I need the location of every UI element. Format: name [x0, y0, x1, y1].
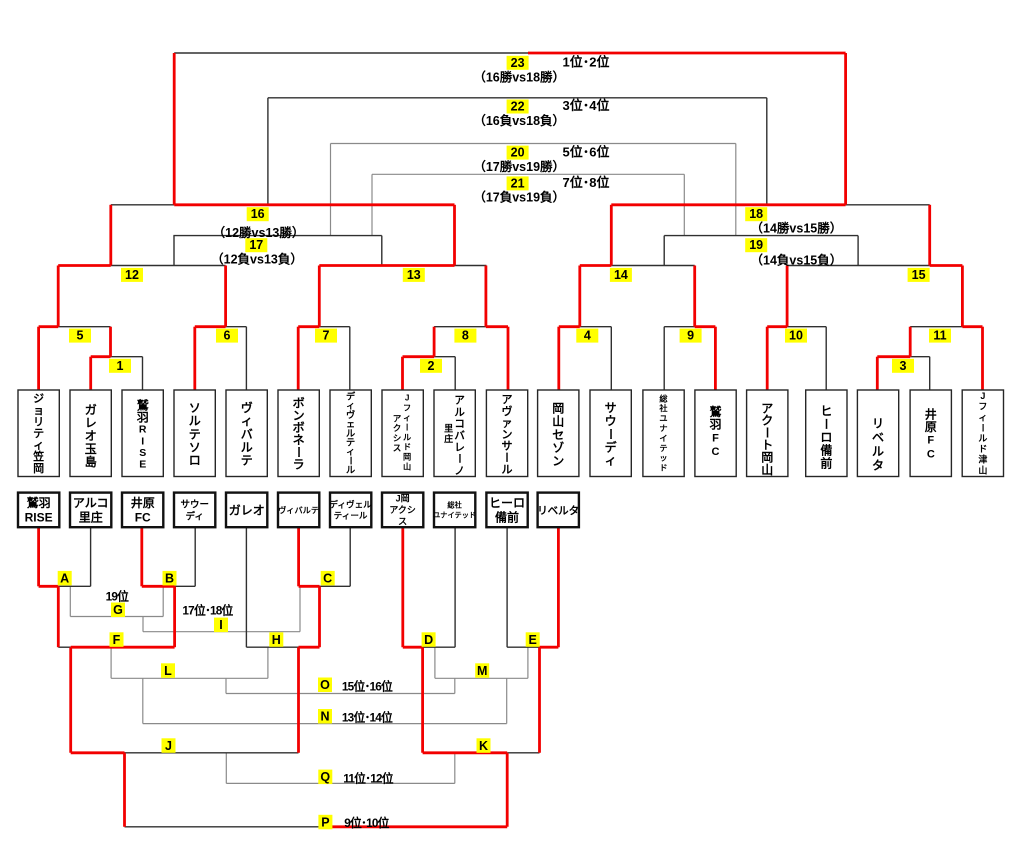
svg-text:ウ: ウ: [605, 414, 617, 428]
match 10 bar: [787, 326, 826, 328]
svg-text:10: 10: [789, 329, 803, 343]
svg-text:備前: 備前: [495, 510, 519, 525]
node 7: [315, 329, 337, 343]
node N: [318, 709, 332, 724]
svg-text:ッ: ッ: [659, 454, 667, 463]
team box 4: [174, 390, 215, 477]
node 4: [576, 329, 598, 343]
svg-text:15: 15: [912, 268, 926, 282]
wire M winner: [506, 678, 508, 723]
wire L loser: [225, 678, 227, 693]
node 23: [507, 56, 529, 70]
wire match 19w loser: [735, 144, 737, 236]
svg-text:フ: フ: [978, 402, 987, 412]
match 5 bar win: [39, 325, 59, 328]
wire B winner: [173, 586, 176, 647]
wire team 13 entry: [663, 327, 665, 390]
wire team 6 entry: [297, 327, 300, 390]
svg-text:20: 20: [511, 146, 525, 160]
wire team 18 entry: [929, 357, 931, 390]
svg-text:9: 9: [687, 329, 694, 343]
match F bar win: [71, 646, 175, 649]
match D bar win: [403, 646, 423, 649]
match 13 bar: [455, 265, 487, 267]
svg-text:（14負vs15負）: （14負vs15負）: [751, 252, 843, 267]
svg-text:E: E: [139, 459, 146, 471]
wire match 14 loser: [663, 236, 665, 266]
svg-text:サ: サ: [605, 401, 617, 415]
svg-text:C: C: [323, 571, 332, 585]
svg-text:山: 山: [403, 461, 411, 471]
wire match 19l loser: [683, 174, 685, 235]
node M: [475, 663, 489, 678]
svg-text:レ: レ: [85, 416, 97, 430]
wire G winner: [142, 617, 144, 632]
wire match 14 winner: [610, 205, 613, 266]
wire team 3 entry: [142, 357, 144, 390]
svg-text:ユ: ユ: [659, 414, 667, 423]
match 8 bar win: [486, 325, 508, 328]
match E bar win: [540, 646, 559, 649]
svg-text:総社: 総社: [447, 501, 462, 510]
svg-text:3: 3: [900, 359, 907, 373]
svg-text:J: J: [405, 394, 410, 403]
svg-text:ー: ー: [978, 423, 988, 432]
svg-text:9位･10位: 9位･10位: [344, 816, 389, 830]
match A bar win: [39, 585, 59, 588]
wire team 1 entry: [37, 327, 40, 390]
svg-text:ル: ル: [189, 414, 201, 428]
node 12: [121, 268, 143, 282]
match 1 bar win: [91, 355, 111, 358]
svg-text:J: J: [980, 391, 985, 401]
team box 19: [962, 390, 1003, 477]
team box 2: [70, 390, 111, 477]
wire E winner: [538, 647, 541, 753]
node 16: [247, 207, 269, 221]
wire H loser: [267, 647, 269, 678]
match K bar win: [423, 751, 508, 754]
node 17: [245, 238, 267, 252]
svg-text:前: 前: [820, 456, 832, 471]
svg-text:鷲羽: 鷲羽: [27, 495, 51, 510]
match D bar: [423, 646, 456, 648]
svg-text:ー: ー: [402, 423, 411, 431]
svg-text:ヴィバルテ: ヴィバルテ: [278, 505, 319, 515]
wire match 15 loser: [857, 236, 859, 266]
wire team 2 entry: [89, 357, 92, 390]
svg-text:玉: 玉: [85, 442, 97, 456]
match 9 bar: [664, 326, 695, 328]
match E bar: [507, 646, 539, 648]
svg-text:ィ: ィ: [33, 440, 44, 452]
wire L winner: [142, 678, 144, 723]
svg-text:フ: フ: [403, 404, 411, 413]
wire team 14 entry: [714, 327, 717, 390]
node B: [163, 571, 177, 586]
wire match 12 winner: [109, 205, 112, 266]
svg-text:ド: ド: [659, 464, 667, 473]
node C: [321, 571, 335, 586]
match P bar win: [331, 825, 507, 828]
wire F loser: [110, 647, 112, 678]
svg-text:H: H: [272, 633, 281, 647]
svg-text:（17勝vs19勝）: （17勝vs19勝）: [473, 159, 565, 174]
svg-text:17: 17: [249, 238, 263, 252]
wire K loser: [454, 753, 456, 784]
wire match 17l loser: [371, 174, 373, 235]
svg-text:7: 7: [323, 329, 330, 343]
wire lower team 3: [140, 527, 143, 586]
svg-text:18: 18: [749, 207, 763, 221]
svg-text:ロ: ロ: [189, 454, 201, 468]
svg-text:ス: ス: [398, 517, 407, 527]
svg-text:井原: 井原: [131, 495, 155, 510]
wire match 17w loser: [330, 144, 332, 236]
match H bar win: [299, 646, 320, 649]
wire match 18 loser: [766, 98, 768, 205]
match G bar: [70, 616, 163, 618]
match 11 bar win: [962, 325, 982, 328]
svg-text:（17負vs19負）: （17負vs19負）: [473, 190, 565, 205]
wire match 16 winner: [173, 53, 176, 205]
wire match 7 winner: [318, 266, 321, 327]
svg-text:テ: テ: [241, 454, 253, 468]
wire match 12 loser: [173, 236, 175, 266]
svg-text:3位･4位: 3位･4位: [563, 98, 610, 113]
svg-text:笠: 笠: [32, 449, 44, 463]
team box 15: [747, 390, 788, 477]
svg-text:E: E: [529, 633, 537, 647]
wire F winner: [69, 647, 72, 753]
lower team box d: [174, 493, 215, 528]
match Q bar: [226, 782, 454, 784]
wire A winner: [57, 586, 60, 647]
team box 10: [486, 390, 527, 477]
svg-text:ラ: ラ: [293, 458, 305, 472]
svg-text:タ: タ: [872, 458, 884, 472]
match 14 bar: [611, 265, 694, 267]
node 1: [109, 359, 131, 373]
svg-text:ョ: ョ: [33, 405, 44, 417]
svg-text:バ: バ: [454, 430, 465, 442]
match 2 bar: [434, 356, 455, 358]
svg-text:11: 11: [933, 329, 946, 343]
match 16 bar win: [174, 203, 454, 206]
svg-text:（16勝vs18勝）: （16勝vs18勝）: [473, 70, 565, 85]
svg-text:山: 山: [978, 464, 987, 475]
wire M loser: [454, 678, 456, 693]
lower team box h: [382, 493, 423, 528]
wire team 17 entry: [876, 357, 879, 390]
svg-text:セ: セ: [552, 428, 564, 442]
team box 16: [806, 390, 847, 477]
wire team 4 entry: [193, 327, 196, 390]
svg-text:ー: ー: [819, 418, 833, 430]
svg-text:岡: 岡: [403, 453, 411, 462]
match 13 bar win: [319, 264, 454, 267]
svg-text:ア: ア: [393, 413, 402, 423]
svg-text:23: 23: [511, 56, 525, 70]
svg-text:岡: 岡: [33, 462, 44, 475]
node 21: [507, 176, 529, 190]
match O bar: [226, 693, 455, 695]
svg-text:里: 里: [444, 424, 453, 434]
svg-text:テ: テ: [659, 444, 667, 453]
svg-text:ノ: ノ: [454, 465, 465, 477]
svg-text:C: C: [927, 448, 935, 460]
lower team box f: [278, 493, 319, 528]
match 23 bar win: [528, 52, 846, 55]
wire lower team 11: [557, 527, 560, 647]
svg-text:8: 8: [462, 329, 469, 343]
svg-text:16: 16: [251, 207, 265, 221]
lower team box k: [538, 493, 579, 528]
wire match 13 winner: [453, 205, 456, 266]
wire lower team 4: [194, 527, 196, 586]
svg-text:21: 21: [511, 176, 525, 190]
svg-text:ド: ド: [978, 444, 987, 454]
match P bar: [125, 826, 332, 828]
wire match 8 winner: [484, 266, 487, 327]
node D: [422, 632, 436, 647]
node 8: [454, 329, 476, 343]
match 22 bar: [268, 97, 767, 99]
lower team box b: [70, 493, 111, 528]
svg-text:ル: ル: [346, 465, 355, 475]
node I: [214, 618, 228, 633]
svg-text:ル: ル: [872, 444, 884, 458]
wire team 8 entry: [401, 357, 404, 390]
wire match 9 winner: [693, 266, 696, 327]
svg-text:G: G: [113, 603, 123, 617]
svg-text:ヴ: ヴ: [502, 404, 513, 418]
svg-text:RISE: RISE: [25, 511, 53, 525]
match 1 bar: [111, 356, 143, 358]
node 6: [216, 329, 238, 343]
svg-text:ー: ー: [500, 452, 512, 463]
match C bar win: [299, 585, 320, 588]
wire E loser: [527, 647, 529, 678]
match 3 bar: [910, 356, 930, 358]
lower team box g: [330, 493, 371, 528]
match 6 bar win: [195, 325, 226, 328]
svg-text:P: P: [321, 815, 329, 829]
svg-text:F: F: [113, 633, 121, 647]
lower team box i: [434, 493, 475, 528]
svg-text:6: 6: [224, 329, 231, 343]
svg-text:ベ: ベ: [872, 430, 884, 444]
svg-text:（12勝vs13勝）: （12勝vs13勝）: [213, 225, 305, 240]
svg-text:ン: ン: [552, 454, 564, 468]
match 17 bar: [173, 235, 381, 237]
svg-text:オ: オ: [85, 429, 97, 443]
svg-text:山: 山: [761, 462, 773, 477]
wire lower team 7: [349, 527, 351, 586]
node P: [318, 815, 332, 830]
match K bar: [507, 752, 539, 754]
node J: [162, 738, 176, 753]
svg-text:ル: ル: [241, 440, 253, 454]
wire H winner: [297, 647, 300, 753]
match H bar: [246, 646, 298, 648]
svg-text:テ: テ: [33, 427, 44, 440]
match 10 bar win: [767, 325, 787, 328]
match 2 bar win: [403, 355, 435, 358]
wire lower team 2: [90, 527, 92, 586]
svg-text:Q: Q: [320, 770, 330, 784]
match 19 bar: [664, 235, 858, 237]
svg-text:J岡: J岡: [396, 494, 410, 504]
match 7 bar win: [298, 325, 319, 328]
svg-text:デ: デ: [605, 439, 618, 454]
svg-text:ィ: ィ: [403, 413, 411, 422]
team box 9: [434, 390, 475, 477]
match 12 bar: [111, 265, 226, 267]
svg-text:13位･14位: 13位･14位: [342, 710, 393, 724]
svg-text:ル: ル: [454, 406, 465, 418]
svg-text:ナ: ナ: [659, 424, 667, 433]
svg-text:里庄: 里庄: [79, 510, 103, 525]
match 4 bar: [580, 326, 612, 328]
svg-text:ィ: ィ: [978, 412, 987, 422]
node 2: [420, 359, 442, 373]
match 15 bar: [787, 265, 930, 267]
wire match 4 winner: [578, 266, 581, 327]
team box 17: [857, 390, 898, 477]
svg-text:ディヴェル: ディヴェル: [329, 499, 372, 510]
wire match 16 loser: [267, 98, 269, 205]
wire match 5 winner: [57, 266, 60, 327]
node 3: [892, 359, 914, 373]
svg-text:ガレオ: ガレオ: [229, 502, 265, 517]
svg-text:アルコ: アルコ: [73, 496, 109, 510]
svg-text:2: 2: [428, 359, 435, 373]
node G: [111, 603, 125, 618]
svg-text:リベルタ: リベルタ: [537, 505, 579, 517]
match 9 bar win: [695, 325, 716, 328]
node 19: [745, 238, 767, 252]
match B bar: [175, 585, 196, 587]
match 20 bar: [331, 143, 736, 145]
wire match 10 winner: [786, 266, 789, 327]
team box 12: [590, 390, 631, 477]
svg-text:O: O: [320, 678, 330, 692]
svg-text:4: 4: [584, 329, 591, 343]
match I bar: [143, 631, 300, 633]
svg-text:ソ: ソ: [189, 440, 201, 454]
match N bar: [143, 723, 507, 725]
svg-text:C: C: [712, 446, 720, 458]
team box 18: [910, 390, 951, 477]
svg-text:5: 5: [77, 329, 84, 343]
node 13: [403, 268, 425, 282]
match 5 bar: [58, 326, 110, 328]
match 16 bar: [111, 204, 174, 206]
svg-text:7位･8位: 7位･8位: [563, 175, 610, 190]
match L bar: [111, 677, 268, 679]
svg-text:K: K: [479, 739, 488, 753]
wire lower team 10: [506, 527, 508, 647]
wire team 19 entry: [981, 327, 984, 390]
svg-text:コ: コ: [454, 418, 465, 430]
svg-text:リ: リ: [872, 416, 884, 430]
svg-text:11位･12位: 11位･12位: [343, 772, 393, 786]
svg-text:I: I: [219, 618, 222, 632]
svg-text:（12負vs13負）: （12負vs13負）: [211, 252, 303, 267]
svg-text:島: 島: [85, 454, 97, 469]
svg-text:イ: イ: [659, 434, 667, 443]
svg-text:羽: 羽: [709, 418, 721, 432]
node 5: [69, 329, 91, 343]
svg-text:庄: 庄: [444, 433, 453, 444]
wire lower team 1: [37, 527, 40, 586]
wire lower team 9: [454, 527, 456, 647]
node K: [477, 738, 491, 753]
svg-text:ヒ: ヒ: [820, 404, 832, 418]
wire A loser: [69, 586, 71, 616]
node 9: [680, 329, 702, 343]
wire team 11 entry: [557, 327, 560, 390]
match 18 bar win: [611, 203, 845, 206]
team box 8: [382, 390, 423, 477]
svg-text:R: R: [139, 424, 147, 436]
svg-text:ア: ア: [454, 395, 465, 407]
svg-text:19位: 19位: [106, 590, 130, 604]
svg-text:ネ: ネ: [293, 433, 305, 447]
node 11: [929, 329, 951, 343]
wire team 7 entry: [349, 327, 351, 390]
svg-text:サ: サ: [502, 440, 513, 453]
svg-text:ディ: ディ: [186, 510, 204, 522]
wire team 10 entry: [507, 327, 510, 390]
svg-text:ユナイテッド: ユナイテッド: [433, 510, 476, 519]
svg-text:ル: ル: [978, 434, 987, 444]
svg-text:ー: ー: [603, 428, 617, 440]
svg-text:ス: ス: [393, 443, 402, 453]
match 3 bar win: [877, 355, 910, 358]
team box 13: [643, 390, 684, 477]
wire team 16 entry: [825, 327, 827, 390]
svg-text:津: 津: [978, 454, 987, 465]
svg-text:（16負vs18負）: （16負vs18負）: [473, 113, 565, 128]
svg-text:アクシ: アクシ: [389, 505, 416, 515]
match 4 bar win: [559, 325, 580, 328]
wire match 15 winner: [928, 205, 931, 266]
wire D loser: [434, 647, 436, 678]
svg-text:原: 原: [925, 420, 937, 434]
team box 11: [538, 390, 579, 477]
svg-text:FC: FC: [135, 511, 151, 525]
node 22: [507, 100, 529, 114]
lower team box j: [486, 493, 527, 528]
svg-text:13: 13: [407, 268, 421, 282]
lower team box e: [226, 493, 267, 528]
svg-text:ル: ル: [403, 433, 412, 442]
svg-text:15位･16位: 15位･16位: [342, 680, 393, 694]
match M bar: [435, 677, 528, 679]
svg-text:19: 19: [749, 238, 763, 252]
team box 14: [695, 390, 736, 477]
svg-text:羽: 羽: [137, 410, 149, 424]
svg-text:I: I: [141, 435, 144, 447]
wire match 6 winner: [224, 266, 227, 327]
svg-text:1: 1: [117, 359, 124, 373]
wire J loser: [225, 753, 227, 784]
svg-text:ヴ: ヴ: [241, 400, 253, 415]
svg-text:17位･18位: 17位･18位: [182, 604, 233, 618]
svg-text:ン: ン: [502, 429, 513, 441]
